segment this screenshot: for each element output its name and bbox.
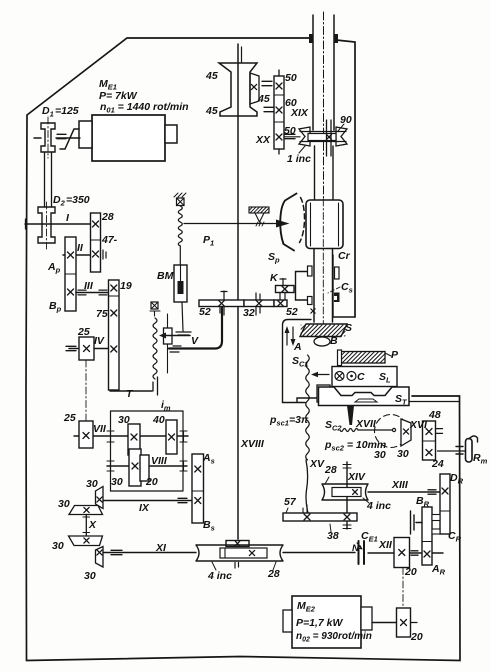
worm 4inc on XVIII bottom (226, 541, 249, 547)
shaft III (76, 292, 108, 294)
spring 2 (153, 318, 157, 379)
svg-text:90: 90 (340, 114, 352, 126)
svg-text:30: 30 (84, 570, 96, 582)
sector Sp (280, 194, 296, 251)
box SL (332, 367, 397, 387)
svg-text:P: P (391, 349, 399, 361)
clutch bars (411, 511, 423, 534)
spring P1 top anchor (177, 198, 185, 206)
bracket box (317, 385, 330, 402)
shaft VII (74, 435, 188, 437)
motor M_E1 (92, 115, 165, 161)
svg-text:52: 52 (199, 306, 211, 318)
head bracket left (296, 272, 311, 301)
svg-text:30: 30 (397, 448, 409, 460)
gear column XIX (50-60-50) (274, 76, 284, 149)
spring SC1 (306, 355, 310, 460)
clutch CE1 (359, 541, 365, 564)
gear 52 right (274, 300, 287, 307)
coupling = (57, 134, 66, 138)
svg-text:X: X (88, 519, 97, 531)
svg-text:S: S (345, 322, 352, 334)
svg-text:50: 50 (285, 72, 297, 84)
svg-text:=125: =125 (55, 105, 79, 117)
spindle cartridge Cr (306, 200, 343, 249)
svg-text:psc1=3π: psc1=3π (269, 414, 309, 428)
motor M_E2 (292, 596, 361, 648)
label 90 (338, 124, 344, 131)
svg-text:38: 38 (327, 530, 339, 542)
svg-text:XII: XII (378, 539, 393, 551)
svg-text:IX: IX (139, 502, 150, 514)
svg-text:30: 30 (52, 540, 64, 552)
safety clutch slash (60, 129, 79, 149)
symbol otimes (335, 372, 344, 381)
svg-text:P=1,7 kW: P=1,7 kW (296, 617, 343, 629)
gear 30 top (128, 424, 140, 455)
table ST (319, 387, 410, 406)
gear BR/AR (422, 507, 432, 565)
svg-text:45: 45 (257, 93, 270, 105)
svg-text:57: 57 (284, 496, 297, 508)
svg-text:24: 24 (431, 458, 444, 470)
svg-text:1 inc: 1 inc (287, 153, 311, 165)
spindle sleeve (315, 146, 334, 199)
svg-text:45: 45 (205, 70, 218, 82)
gear 20 on XII (394, 538, 410, 568)
svg-text:Cr: Cr (338, 250, 351, 262)
variator frame im (111, 411, 184, 491)
motor shaft (56, 137, 80, 139)
shaft VIII (107, 465, 187, 467)
svg-text:30: 30 (118, 414, 130, 426)
arrow B ellipse (314, 337, 330, 346)
svg-text:25: 25 (63, 412, 76, 424)
table support taper (347, 406, 354, 426)
svg-text:V: V (191, 335, 199, 347)
handwheel Rm (466, 439, 473, 463)
svg-text:20: 20 (410, 631, 423, 643)
svg-text:4 inc: 4 inc (207, 570, 232, 582)
gear 40 (166, 420, 177, 454)
gear 30 bottom (129, 449, 141, 486)
svg-text:52: 52 (286, 306, 298, 318)
gear 19 / wheel 75 (109, 280, 120, 390)
belt (44, 152, 46, 207)
svg-text:20: 20 (404, 566, 417, 578)
gear 28/47 (91, 213, 101, 272)
link V to gear 52 (169, 308, 222, 349)
svg-text:32: 32 (243, 307, 255, 319)
svg-text:30: 30 (111, 476, 123, 488)
shaft XIV (346, 462, 348, 529)
gear 20 lower (397, 608, 411, 637)
svg-text:XI: XI (155, 542, 167, 554)
gear 90 rack drive (299, 127, 347, 146)
svg-text:XVIII: XVIII (240, 438, 265, 450)
svg-text:VIII: VIII (151, 455, 168, 467)
bevel 30 on XVI (401, 419, 411, 446)
gear Ap/Bp (65, 237, 76, 311)
svg-text:VII: VII (93, 423, 107, 435)
shaft XVII (358, 429, 392, 431)
shaft T (110, 390, 152, 392)
shaft to Rm (438, 450, 466, 452)
shaft XII (368, 552, 443, 554)
gear 20 (140, 455, 149, 481)
bearings (107, 431, 114, 442)
shaft XI (103, 552, 196, 554)
svg-text:30: 30 (86, 478, 98, 490)
brake BM (174, 265, 187, 302)
svg-text:28: 28 (101, 211, 114, 223)
svg-text:50: 50 (284, 125, 296, 137)
pulley D2 (38, 207, 55, 243)
clutch ticks (103, 250, 106, 259)
svg-text:30: 30 (58, 498, 70, 510)
svg-text:XX: XX (255, 134, 271, 146)
gear bar 57/38 (283, 513, 357, 521)
arrow into spring (316, 374, 329, 376)
bevel 45 right (250, 73, 259, 104)
svg-text:B: B (330, 335, 338, 347)
svg-text:25: 25 (77, 326, 90, 338)
damper rod (167, 314, 169, 373)
cone pulley 45/45 (219, 63, 257, 116)
shaft I (25, 223, 90, 225)
rocker line (184, 223, 277, 225)
worm wheel 28 + worm 4inc (322, 484, 368, 500)
shaft XVIII vertical (237, 44, 239, 300)
svg-text:BM: BM (157, 270, 174, 282)
dashed link (85, 360, 87, 420)
gear DR/CR (440, 474, 450, 534)
spring 2 anchor (151, 302, 158, 309)
fixed support (249, 207, 269, 213)
shaft IX (103, 500, 192, 502)
svg-text:XIII: XIII (391, 479, 409, 491)
svg-text:C: C (357, 371, 365, 383)
gear 52 left (199, 300, 244, 307)
damper cylinder (164, 328, 173, 344)
svg-text:4 inc: 4 inc (366, 500, 391, 512)
svg-text:XV: XV (309, 458, 325, 470)
shaft XIII (368, 491, 440, 493)
shaft IV (69, 348, 108, 350)
gear As/Bs (192, 454, 204, 523)
shaft X (85, 515, 87, 537)
shaft II (63, 254, 90, 256)
svg-text:XVII: XVII (355, 418, 377, 430)
svg-text:19: 19 (120, 280, 132, 292)
gear 32 (244, 300, 274, 307)
spring P1 (178, 206, 182, 246)
dial circle (375, 415, 408, 448)
arrows A (286, 329, 288, 345)
svg-text:IV: IV (94, 335, 105, 347)
svg-text:XIV: XIV (347, 471, 366, 483)
gear K (276, 286, 295, 293)
stubs (221, 291, 227, 300)
svg-text:30: 30 (374, 449, 386, 461)
column (313, 15, 334, 130)
link to motor gear (402, 568, 404, 609)
svg-text:75: 75 (96, 308, 108, 320)
svg-text:45: 45 (205, 105, 218, 117)
bevel pair on X top (96, 487, 104, 509)
worm wheel 28 on XI (196, 545, 283, 561)
spindle inner shaft (327, 120, 332, 156)
coupling marks (262, 81, 272, 85)
arm bracket outline (283, 320, 318, 403)
pressure bar P (hatched) (341, 352, 385, 364)
gear XVI 48/24 (423, 421, 436, 460)
svg-text:XVI: XVI (409, 419, 428, 431)
line XV (306, 460, 308, 513)
pulley D1 (41, 123, 55, 152)
svg-text:A: A (293, 341, 302, 353)
table S (hatched) (300, 324, 347, 337)
svg-text:48: 48 (428, 409, 441, 421)
gear 25 on VII (79, 421, 93, 448)
svg-text:28: 28 (324, 464, 337, 476)
svg-text:47-: 47- (101, 234, 118, 246)
svg-text:40: 40 (152, 414, 165, 426)
svg-text:20: 20 (145, 476, 158, 488)
quill (314, 249, 333, 323)
svg-text:=350: =350 (66, 194, 90, 206)
head wall right / Cs (332, 255, 334, 317)
gear 25 (79, 337, 94, 360)
bevel pair on X bottom (69, 536, 103, 546)
frame line to border (409, 401, 459, 403)
shaft V (164, 335, 190, 337)
mesh tabs (432, 515, 440, 521)
symbol odot (347, 372, 356, 381)
svg-text:XIX: XIX (290, 107, 309, 119)
